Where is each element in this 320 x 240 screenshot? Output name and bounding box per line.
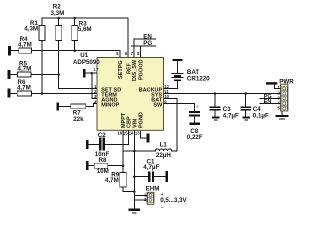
svg-text:14: 14 xyxy=(129,130,134,135)
svg-text:C2: C2 xyxy=(98,132,106,139)
svg-text:+: + xyxy=(161,192,164,198)
svg-text:DIS_SW: DIS_SW xyxy=(132,59,138,81)
svg-text:22k: 22k xyxy=(73,116,84,123)
svg-text:−: − xyxy=(161,205,164,211)
svg-text:PG: PG xyxy=(143,40,152,47)
svg-text:5: 5 xyxy=(116,51,119,56)
svg-text:5: 5 xyxy=(277,106,280,111)
svg-text:4,7µF: 4,7µF xyxy=(143,164,159,171)
svg-text:U1: U1 xyxy=(80,52,88,59)
svg-text:PGOOD: PGOOD xyxy=(138,59,144,80)
svg-text:13: 13 xyxy=(135,130,140,135)
svg-text:4,7M: 4,7M xyxy=(17,85,31,92)
svg-text:MINOP: MINOP xyxy=(101,103,119,109)
svg-text:4,7M: 4,7M xyxy=(105,177,119,184)
svg-text:0,22F: 0,22F xyxy=(187,134,203,141)
svg-text:CR1220: CR1220 xyxy=(187,76,210,83)
svg-text:+: + xyxy=(196,105,199,110)
svg-text:15: 15 xyxy=(123,130,128,135)
svg-text:4,7µF: 4,7µF xyxy=(223,113,239,120)
svg-text:0,1µF: 0,1µF xyxy=(253,113,269,120)
svg-text:8: 8 xyxy=(137,51,140,56)
svg-text:10M: 10M xyxy=(97,168,109,175)
svg-text:SW: SW xyxy=(153,103,163,109)
svg-text:PGND: PGND xyxy=(139,112,145,128)
svg-text:5,6M: 5,6M xyxy=(78,26,92,33)
svg-text:17: 17 xyxy=(93,67,99,72)
svg-text:6: 6 xyxy=(125,51,128,56)
svg-text:SETPG: SETPG xyxy=(118,60,124,79)
svg-text:10nF: 10nF xyxy=(95,151,110,158)
svg-text:ADP5090: ADP5090 xyxy=(73,59,100,66)
svg-text:7: 7 xyxy=(131,51,134,56)
svg-text:R8: R8 xyxy=(99,157,107,164)
svg-text:4,7M: 4,7M xyxy=(18,66,32,73)
svg-text:3,3M: 3,3M xyxy=(51,10,65,17)
svg-text:4,3M: 4,3M xyxy=(24,25,38,32)
svg-text:EHM: EHM xyxy=(146,186,160,193)
svg-text:VIN: VIN xyxy=(132,119,138,128)
svg-text:0,5...3,3V: 0,5...3,3V xyxy=(160,197,187,204)
svg-text:22µH: 22µH xyxy=(156,152,171,159)
svg-text:4,7M: 4,7M xyxy=(18,42,32,49)
svg-text:L1: L1 xyxy=(160,141,168,148)
svg-text:PWR: PWR xyxy=(279,78,294,85)
svg-text:EN: EN xyxy=(264,99,272,105)
